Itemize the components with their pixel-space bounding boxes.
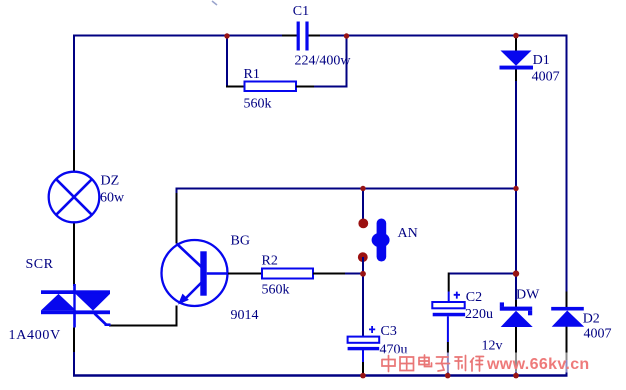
wire mid bus D1 node to C2 node (navy) xyxy=(515,189,517,301)
wire C2 top stub (black) xyxy=(448,273,450,292)
svg-text:220u: 220u xyxy=(465,307,493,322)
junction node C3 bottom xyxy=(360,373,366,379)
wire R1 left stub (black) xyxy=(226,86,245,88)
wire C2 top stub (blue) xyxy=(448,292,450,303)
junction node top R1 left xyxy=(224,33,229,38)
thyristor SCR (triac) xyxy=(41,284,111,327)
svg-text:1A400V: 1A400V xyxy=(9,328,61,343)
svg-text:www.66kv.cn: www.66kv.cn xyxy=(486,356,590,373)
wire C2 node rail (navy) xyxy=(449,273,516,275)
wire AN branch upper (navy) xyxy=(362,189,364,222)
transistor BG xyxy=(162,240,229,306)
svg-text:DW: DW xyxy=(516,288,540,303)
svg-text:C1: C1 xyxy=(293,4,309,19)
wire BG collector vertical (black) xyxy=(176,193,178,244)
svg-text:224/400w: 224/400w xyxy=(295,53,352,68)
wire left bus lamp bottom stub (black) xyxy=(73,221,75,286)
wire C2 bottom stub (blue) xyxy=(447,316,449,342)
wire right bus lower (navy) xyxy=(566,360,568,377)
wire left bus lamp top stub (black) xyxy=(73,150,75,173)
svg-text:DZ: DZ xyxy=(101,174,120,189)
button AN terminal top xyxy=(358,219,368,229)
button AN actuator xyxy=(372,219,390,262)
wire right bus upper (navy) xyxy=(566,35,568,292)
wire DW top stub (black) xyxy=(515,300,517,307)
svg-text:D2: D2 xyxy=(583,311,600,326)
svg-text:D1: D1 xyxy=(533,53,550,68)
wire R1 branch left vertical (navy) xyxy=(226,36,228,88)
capacitor C2 xyxy=(432,292,465,317)
wire D1 top stub (black) xyxy=(515,36,517,52)
svg-text:SCR: SCR xyxy=(26,257,54,272)
wire left bus upper (navy) xyxy=(73,35,75,151)
svg-text:560k: 560k xyxy=(262,283,290,298)
junction node mid D1 bus xyxy=(513,186,518,191)
wire R1 branch right (navy) xyxy=(314,36,347,87)
wire BG emitter vertical (black) xyxy=(176,306,178,327)
svg-text:560k: 560k xyxy=(244,96,272,111)
watermark band xyxy=(378,353,598,373)
svg-text:9014: 9014 xyxy=(231,308,259,323)
wire top rail right (navy) xyxy=(320,35,568,37)
wire mid horizontal rail (navy) xyxy=(176,188,517,190)
wire D1 bottom stub (black) xyxy=(515,70,517,82)
wire D1 to mid node (navy) xyxy=(515,81,517,189)
wire bottom rail (navy) xyxy=(73,374,568,377)
wire R2 right stub (black) xyxy=(313,273,345,275)
svg-text:4007: 4007 xyxy=(532,70,560,85)
diode D1 xyxy=(500,51,534,70)
wire SCR bottom stub (blue) xyxy=(73,314,75,328)
junction node C2 bus xyxy=(513,270,519,276)
wire DW bottom tail (navy) xyxy=(515,371,517,375)
artifact mark top xyxy=(212,1,217,5)
wire left bus lower (navy) xyxy=(73,352,75,377)
junction node top D1 xyxy=(513,33,519,39)
svg-text:AN: AN xyxy=(398,226,418,241)
junction node mid AN xyxy=(360,186,365,191)
wire top rail C1 left stub (black) xyxy=(282,35,298,37)
junction node DW bottom xyxy=(513,373,519,379)
wire left bus below SCR (black) xyxy=(73,328,75,353)
junction node R2 AN xyxy=(360,271,366,277)
svg-text:R2: R2 xyxy=(262,254,278,269)
wire BG base to R2 (black) xyxy=(228,273,262,275)
zener DW xyxy=(500,302,533,327)
wire R1 right stub (black) xyxy=(296,86,314,88)
svg-text:60w: 60w xyxy=(100,191,125,206)
junction node top R1 right xyxy=(344,33,349,38)
wire C3 bottom stub blue xyxy=(362,350,364,362)
watermark chinese characters xyxy=(382,355,484,372)
svg-text:4007: 4007 xyxy=(584,327,612,342)
wire emitter to SCR gate (black) xyxy=(109,325,178,327)
resistor R1 xyxy=(245,82,297,92)
wire top rail left (navy) xyxy=(73,35,282,37)
wire BG collector corner (navy) xyxy=(176,188,178,194)
wire C2 bottom tail (navy) xyxy=(447,353,449,375)
wire AN branch lower (navy) xyxy=(362,257,364,337)
wire R2 to AN node (navy) xyxy=(345,273,363,275)
wire C3 bottom stub black xyxy=(362,362,364,374)
svg-text:C3: C3 xyxy=(381,324,397,339)
capacitor C1 xyxy=(297,22,309,51)
button AN terminal bottom xyxy=(358,252,368,262)
wire D2 top stub (black) xyxy=(566,292,568,308)
svg-text:R1: R1 xyxy=(244,67,260,82)
lamp DZ xyxy=(49,172,100,223)
capacitor C3 xyxy=(348,326,380,350)
svg-text:C2: C2 xyxy=(466,290,482,305)
svg-text:BG: BG xyxy=(231,234,250,249)
junction node C2 bottom xyxy=(445,373,451,379)
wire SCR top stub (blue) xyxy=(73,284,75,291)
wire top rail C1 right stub (black) xyxy=(308,35,320,37)
diode D2 xyxy=(551,307,584,327)
wire D2 bottom stub (black) xyxy=(566,327,568,361)
wire C2 bottom stub (black) xyxy=(447,342,449,353)
wire DW bottom stub (black) xyxy=(515,327,517,371)
svg-text:12v: 12v xyxy=(482,339,503,354)
resistor R2 xyxy=(262,269,313,279)
